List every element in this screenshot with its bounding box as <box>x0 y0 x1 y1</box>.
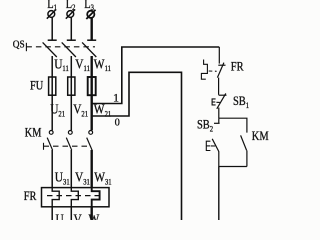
button SB1 actuator E <box>212 99 220 105</box>
wire FR box to motor V <box>70 207 72 220</box>
wire fuse U to KM <box>51 95 53 130</box>
wire L1 to QS <box>51 18 53 40</box>
button SB2 (NO start) <box>212 118 219 166</box>
contact FR label <box>231 61 244 74</box>
node L1 label <box>47 0 57 12</box>
fuse FU pole 1 <box>49 77 56 95</box>
wire QS to fuse V <box>70 56 72 77</box>
wire node0 to control (net 0) <box>92 72 182 220</box>
wire FR box to motor U <box>51 207 53 220</box>
node V21 label <box>73 101 88 118</box>
contactor KM main pole 1 <box>47 131 53 151</box>
contact KM aux (NO) <box>241 135 247 166</box>
wire branch node to KM aux <box>219 118 247 132</box>
svg-text:QS: QS <box>13 39 25 51</box>
node W31 label <box>94 170 112 187</box>
thermal relay FR heater 2 <box>71 188 78 207</box>
wire fuse W to KM <box>90 95 92 130</box>
fuse FU label <box>30 80 43 93</box>
wire FR box to motor W <box>90 207 92 220</box>
svg-text:FR: FR <box>231 61 244 74</box>
wire to KM coil (cut off) <box>218 167 220 221</box>
node U11 label <box>54 56 69 73</box>
thermal relay FR box <box>42 188 110 207</box>
contact KM aux label <box>252 130 269 143</box>
wire node1 to control (net 1) <box>92 47 220 104</box>
svg-text:FR: FR <box>24 190 37 203</box>
wire KM to FR box V <box>70 150 72 188</box>
terminal L2 <box>66 10 75 19</box>
node 0 label <box>115 117 120 128</box>
button SB1 label <box>233 95 249 110</box>
svg-text:KM: KM <box>25 127 42 140</box>
node V11 label <box>75 56 90 73</box>
node L2 label <box>66 0 76 12</box>
button SB2 label <box>197 119 213 134</box>
contactor KM label <box>25 127 42 140</box>
contactor KM linkage <box>44 143 90 150</box>
node L3 label <box>84 0 94 12</box>
node W11 label <box>94 56 111 73</box>
contactor KM main pole 2 <box>66 131 72 151</box>
wire KM to FR box W <box>90 150 92 188</box>
thermal relay FR heater 3 <box>92 188 100 207</box>
wire L2 to QS <box>70 18 72 40</box>
svg-text:0: 0 <box>115 117 120 128</box>
terminal L3 <box>86 10 95 19</box>
wire control drop to FR contact <box>218 47 220 64</box>
fuse FU pole 3 <box>88 77 96 95</box>
wire KM to FR box U <box>51 150 53 188</box>
svg-text:1: 1 <box>113 91 119 105</box>
node U31 label <box>55 170 70 187</box>
wire parallel join <box>219 166 247 168</box>
svg-text:KM: KM <box>252 130 269 143</box>
node 1 label <box>113 91 119 105</box>
node U1 partial label <box>56 212 68 229</box>
contactor KM main pole 3 <box>87 131 93 151</box>
switch QS pole 2 <box>62 40 76 57</box>
thermal relay FR heater 1 <box>52 188 59 207</box>
thermal relay FR label <box>24 190 37 203</box>
wire fuse V to KM <box>70 95 72 130</box>
switch QS linkage <box>26 43 95 51</box>
contact FR actuator bracket <box>201 60 216 80</box>
button SB1 (NC stop) <box>217 93 227 118</box>
node V1 partial label <box>74 212 86 229</box>
svg-text:FU: FU <box>30 80 43 93</box>
node U21 label <box>50 101 65 118</box>
contact FR (NC) <box>217 63 225 95</box>
switch QS pole 1 <box>43 40 57 57</box>
wire L3 to QS <box>90 18 92 40</box>
switch QS pole 3 <box>82 40 96 57</box>
node W1 partial label <box>89 212 103 229</box>
switch QS label <box>13 39 25 51</box>
node W21 label <box>94 101 112 118</box>
terminal L1 <box>47 10 56 19</box>
thermal relay FR linkage <box>47 195 100 197</box>
fuse FU pole 2 <box>68 77 75 95</box>
button SB2 actuator E <box>206 141 215 150</box>
wire QS to fuse W <box>90 56 92 77</box>
wire QS to fuse U <box>51 56 53 77</box>
node V31 label <box>75 170 90 187</box>
